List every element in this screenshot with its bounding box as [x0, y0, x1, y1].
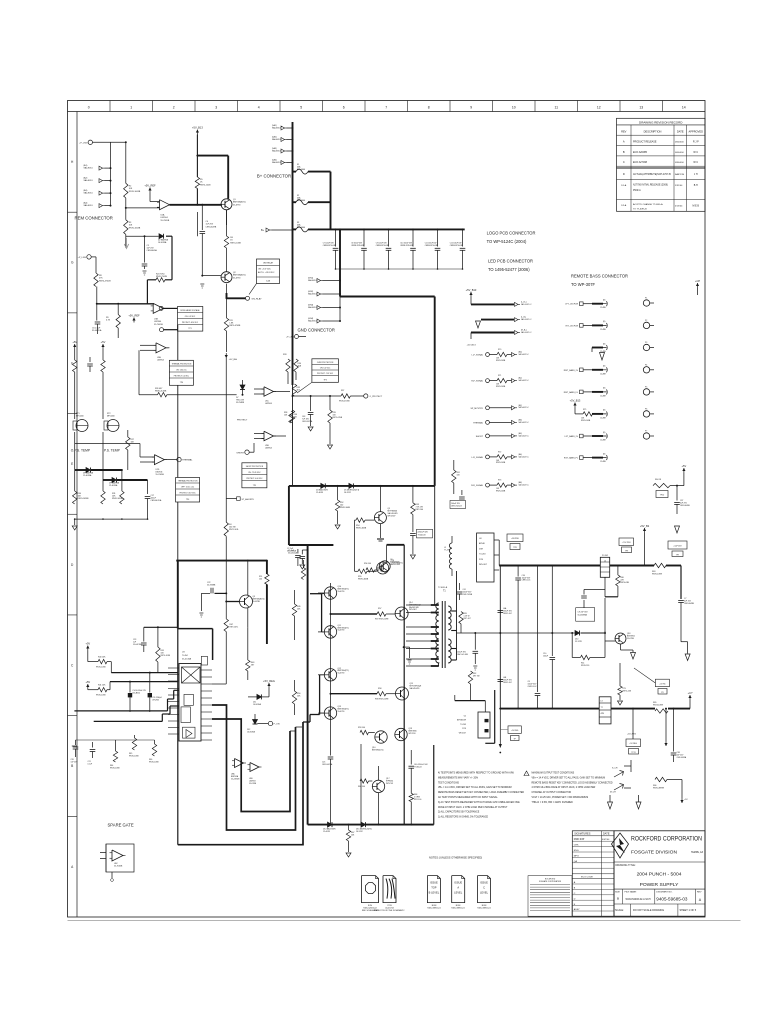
svg-text:+5V_REF: +5V_REF — [144, 183, 156, 187]
svg-text:RN70-102B: RN70-102B — [200, 184, 211, 186]
svg-text:+5V_B2: +5V_B2 — [640, 524, 650, 528]
output bus y=565.5 — [499, 565, 600, 567]
svg-text:9405-33855-01: 9405-33855-01 — [451, 907, 465, 909]
svg-text:TO 1495-52477 (2006): TO 1495-52477 (2006) — [488, 267, 530, 272]
op-amp U1A — [160, 200, 170, 210]
svg-text:RN74-10RE: RN74-10RE — [653, 704, 664, 706]
rail x=266.9 down — [266, 561, 268, 574]
svg-text:ACCPTD CHANGE T7-50R+A: ACCPTD CHANGE T7-50R+A — [633, 203, 663, 206]
svg-text:A: A — [623, 140, 625, 144]
svg-text:TP4: TP4 — [186, 499, 189, 501]
leader from over protection box — [297, 382, 312, 393]
svg-text:55-7478: 55-7478 — [575, 641, 582, 643]
svg-text:RN70-103B: RN70-103B — [496, 490, 506, 492]
svg-text:5A2+6027+C: 5A2+6027+C — [519, 353, 530, 356]
svg-text:TP5: TP5 — [253, 485, 256, 487]
svg-text:RN71-101L: RN71-101L — [229, 529, 239, 531]
regulator U2 box — [478, 712, 490, 738]
svg-text:3: 3 — [215, 106, 217, 110]
svg-text:BLT-0640: BLT-0640 — [297, 169, 305, 171]
capacitor C38 — [673, 709, 675, 752]
svg-text:LM2904: LM2904 — [154, 321, 162, 323]
capacitor L4B on x=500.3 — [498, 679, 504, 681]
capacitor C15 polarized — [149, 673, 151, 693]
svg-text:U1B: U1B — [154, 319, 159, 321]
svg-text:12-4039: 12-4039 — [316, 492, 323, 494]
diode D5 — [349, 483, 354, 488]
svg-text:RN?-100: RN?-100 — [414, 799, 421, 801]
svg-text:12-4RE: 12-4RE — [600, 373, 607, 375]
svg-text:SCALE:: SCALE: — [615, 909, 624, 912]
vertical link left of D10 — [571, 633, 573, 658]
pin +P_LNG top — [88, 140, 92, 144]
svg-text:PROTECT: 0.4 VDC: PROTECT: 0.4 VDC — [174, 375, 190, 377]
main B+ bus horizontal thick — [308, 228, 465, 230]
svg-text:CERO-10C: CERO-10C — [503, 613, 513, 615]
svg-text:11: 11 — [554, 106, 558, 110]
svg-text:55-7065B: 55-7065B — [154, 324, 163, 326]
svg-text:BMT586A(T1): BMT586A(T1) — [233, 201, 246, 204]
pin P_ON — [268, 721, 272, 725]
pin +P_LNG lower — [87, 255, 91, 259]
svg-text:VOLT = 10.25 VAC, POWER SET =: VOLT = 10.25 VAC, POWER SET = 600 MS/MAX… — [532, 796, 589, 799]
svg-text:RN?-10TL: RN?-10TL — [230, 627, 239, 629]
resistor R38 on rail — [290, 410, 294, 423]
Q17 wires — [378, 793, 380, 825]
svg-text:WP-0307: WP-0307 — [409, 609, 417, 611]
svg-text:CHK: CHK — [574, 845, 579, 847]
pin B+ — [266, 228, 270, 232]
svg-text:CERM-3376-63B: CERM-3376-63B — [376, 245, 390, 247]
fuse F1 body — [296, 169, 308, 174]
Q5 drain to bus — [380, 485, 382, 487]
thermistor RT1 — [76, 420, 88, 432]
svg-text:+5V R5: +5V R5 — [659, 683, 665, 685]
resistor R42 — [157, 626, 159, 628]
testpoint box +75uF 35V — [619, 538, 634, 546]
thick junction row y=303.8 — [97, 303, 154, 305]
svg-text:1uF 25V: 1uF 25V — [71, 761, 79, 763]
svg-text:55-6790: 55-6790 — [338, 673, 345, 675]
U3 inner cross block — [182, 667, 201, 683]
svg-text:TO T7-60R+B: TO T7-60R+B — [633, 209, 647, 211]
svg-text:+5V_B13: +5V_B13 — [466, 288, 477, 292]
svg-text:ISSUE: ISSUE — [480, 881, 488, 885]
svg-text:R58: R58 — [378, 688, 381, 690]
svg-text:55-7065B: 55-7065B — [114, 866, 123, 868]
resistor R39 — [329, 395, 331, 397]
sensor interconnect line — [75, 443, 140, 445]
svg-text:ECO A20085: ECO A20085 — [633, 151, 648, 154]
resistor R69 secondary — [459, 612, 463, 624]
resistor R51 — [265, 574, 269, 584]
diode D8 — [74, 432, 76, 470]
svg-text:+5V_REF: +5V_REF — [128, 313, 140, 317]
GND bus from B+ area — [339, 229, 341, 296]
svg-text:R75: R75 — [583, 409, 586, 411]
resistor R3 — [124, 220, 128, 235]
svg-text:POWER SUPPLY: POWER SUPPLY — [640, 882, 680, 888]
buffer gate U6B — [250, 763, 259, 772]
svg-text:PWR-A: PWR-A — [633, 189, 641, 192]
rail jog to IC pin column — [178, 628, 213, 630]
wire loop inner — [212, 719, 290, 812]
svg-text:DRAWING REVISION RECORD: DRAWING REVISION RECORD — [639, 120, 683, 124]
svg-text:WP-0307: WP-0307 — [388, 516, 396, 518]
svg-text:5A2+6027+C: 5A2+6027+C — [519, 434, 530, 437]
svg-text:DRV/LOADER VOLTAGE: DRV/LOADER VOLTAGE — [180, 309, 200, 312]
svg-text:TEST CONDITIONS: TEST CONDITIONS — [438, 782, 459, 784]
fuse F2 body — [296, 200, 308, 205]
svg-text:DRAWING TITLE:: DRAWING TITLE: — [616, 864, 636, 867]
svg-text:ASSY: ASSY — [574, 908, 580, 911]
B+ rail lower segment — [292, 385, 294, 486]
thick row y=710.9 with staircase — [74, 710, 167, 712]
Q2 emitter chain down — [226, 284, 228, 318]
svg-text:1: 1 — [130, 106, 132, 110]
svg-text:12-4RE: 12-4RE — [600, 395, 607, 397]
svg-text:OVER PROTECTION: OVER PROTECTION — [317, 362, 334, 364]
svg-text:DATE: DATE — [677, 130, 684, 134]
svg-text:CER-0649B: CER-0649B — [680, 505, 690, 507]
svg-text:+5V: +5V — [682, 464, 687, 468]
svg-text:AP946: AP946 — [479, 542, 485, 545]
svg-text:PCN: PCN — [479, 559, 484, 561]
svg-text:+LV REG: +LV REG — [511, 730, 519, 732]
+LV REG testpoint box — [508, 726, 521, 734]
svg-text:SHORT: SHORT — [236, 452, 244, 454]
svg-text:PC-302: PC-302 — [602, 555, 608, 557]
svg-text:B+ CONNECTOR: B+ CONNECTOR — [257, 174, 291, 179]
svg-text:P.S. TEMP: P.S. TEMP — [104, 448, 121, 452]
svg-text:L3: L3 — [601, 701, 603, 703]
svg-text:RGT_BASS_FL: RGT_BASS_FL — [564, 457, 579, 460]
svg-text:RN70-1B4B: RN70-1B4B — [356, 528, 367, 530]
capacitor L4A on x=500.3 — [498, 610, 504, 612]
diode D10 row — [457, 632, 575, 634]
svg-text:+5V_B13: +5V_B13 — [466, 345, 476, 347]
transistor Q18 — [615, 633, 626, 644]
svg-text:CERO-10C: CERO-10C — [503, 682, 513, 684]
ground — [346, 853, 351, 857]
svg-text:BLT-0640: BLT-0640 — [297, 200, 305, 202]
svg-text:DESCRIPTION: DESCRIPTION — [644, 130, 662, 134]
svg-text:55-678B: 55-678B — [253, 601, 261, 603]
output bus lower y=708.6 — [500, 708, 599, 710]
svg-text:CER-0649A: CER-0649A — [147, 249, 158, 252]
capacitor C5 — [144, 236, 146, 262]
svg-text:RN70-1003B: RN70-1003B — [129, 191, 141, 193]
svg-text:BMT586A(T1): BMT586A(T1) — [233, 274, 246, 277]
left letter strip — [76, 112, 78, 918]
svg-text:MAXIMUM OUTPUT TEST CONDITIONS: MAXIMUM OUTPUT TEST CONDITIONS — [532, 772, 575, 775]
open arrow down c37 — [675, 526, 680, 533]
svg-text:LM2904: LM2904 — [265, 448, 272, 450]
svg-text:RN70-103B: RN70-103B — [149, 761, 159, 763]
capacitor C8 column — [537, 566, 539, 693]
svg-text:16-3112: 16-3112 — [344, 492, 351, 494]
notes column 2 with warning triangle — [524, 771, 529, 776]
pin GN_RELAY — [246, 296, 250, 300]
cap + res column x=411 — [410, 750, 412, 765]
pin +P_LNG gnd area — [295, 335, 299, 339]
MOSFET Q15 — [396, 687, 409, 700]
svg-text:MF-5000: MF-5000 — [107, 416, 115, 418]
svg-text:9: 9 — [470, 106, 472, 110]
svg-text:S_CH: S_CH — [612, 768, 618, 770]
resistor R67 — [348, 824, 350, 826]
svg-text:L-F_SGNAL: L-F_SGNAL — [472, 354, 484, 357]
+5V_RB arrow chains — [74, 344, 76, 349]
svg-text:5A2+6027+C: 5A2+6027+C — [519, 406, 530, 409]
svg-text:4K7: 4K7 — [251, 665, 254, 667]
svg-text:RN70-1003B: RN70-1003B — [129, 227, 141, 229]
svg-text:AUTO: +13.8 VDC: AUTO: +13.8 VDC — [258, 271, 275, 274]
svg-text:ON: 0.3 VDC: ON: 0.3 VDC — [185, 316, 196, 318]
pin O_PROTECT — [364, 394, 368, 398]
svg-text:PROTECT: 0.06 VDC: PROTECT: 0.06 VDC — [246, 478, 263, 480]
transistor Q11 — [324, 626, 336, 638]
thermistor RT2 — [107, 420, 119, 432]
T1 right pins — [451, 610, 456, 612]
svg-text:R40 10K: R40 10K — [98, 657, 106, 659]
svg-text:+5B PSU: +5B PSU — [511, 538, 519, 540]
svg-text:ON: 130 ±5C: ON: 130 ±5C — [176, 369, 187, 371]
svg-text:+5uF 45V: +5uF 45V — [673, 545, 682, 547]
snubber under T1 — [468, 671, 472, 684]
capacitor C9 — [388, 228, 390, 230]
svg-text:RN70-103B: RN70-103B — [496, 386, 506, 388]
svg-text:SA-545-WD: SA-545-WD — [410, 687, 421, 690]
svg-text:RN75-03VB: RN75-03VB — [333, 417, 343, 419]
svg-text:SA0-E051: SA0-E051 — [84, 179, 94, 182]
svg-text:APPROVED: APPROVED — [689, 130, 704, 134]
bus y=560.6 — [176, 560, 267, 562]
svg-text:ON: 72.45 VDC: ON: 72.45 VDC — [248, 472, 261, 474]
pin to DRV box lower — [160, 328, 164, 332]
ground — [328, 445, 333, 449]
svg-text:SA0-E051: SA0-E051 — [272, 149, 281, 152]
connector circle pin 4 — [643, 367, 649, 373]
svg-text:MFG: MFG — [574, 855, 579, 857]
svg-text:RN70-10RE: RN70-10RE — [652, 573, 663, 575]
svg-text:(A4): (A4) — [84, 201, 88, 204]
svg-text:L-R_SGNAL: L-R_SGNAL — [471, 456, 483, 459]
svg-text:RN70-1B4B: RN70-1B4B — [358, 579, 369, 581]
size/file/part row — [621, 889, 623, 904]
THERMAL PROTECTION box 1 — [169, 360, 193, 385]
svg-text:13: 13 — [639, 106, 643, 110]
thick row 3 — [471, 332, 514, 334]
svg-text:12-4039A: 12-4039A — [83, 474, 92, 477]
svg-text:5A2+6027+C: 5A2+6027+C — [519, 421, 530, 424]
svg-text:555-B524: 555-B524 — [132, 692, 140, 694]
resistor R4 — [224, 522, 228, 536]
capacitor C9 — [583, 590, 585, 595]
svg-text:TP10: TP10 — [660, 494, 664, 496]
op-amp U5C — [264, 387, 274, 397]
pin ST_AHOSTD — [226, 498, 236, 500]
svg-text:R J P: R J P — [693, 141, 699, 144]
svg-text:TP6: TP6 — [180, 382, 183, 384]
svg-text:THD+N = 0.5%, BW = 22kHz FILTE: THD+N = 0.5%, BW = 22kHz FILTERED — [532, 802, 574, 804]
svg-text:RN70-103B: RN70-103B — [96, 695, 106, 697]
svg-text:+5V: +5V — [85, 680, 90, 684]
svg-text:SA0-E051: SA0-E051 — [84, 204, 94, 207]
wire loop middle — [212, 705, 296, 830]
thick output wire — [170, 204, 223, 206]
transistor Q2 — [221, 272, 232, 283]
pin THERMAL — [177, 457, 181, 461]
svg-text:GND CONNECTOR: GND CONNECTOR — [298, 328, 335, 333]
svg-text:THERMAL PROTECTION: THERMAL PROTECTION — [178, 480, 198, 483]
svg-text:CERM-3376-63B: CERM-3376-63B — [323, 245, 337, 247]
diode D2 — [159, 234, 164, 239]
svg-text:CERM-3376-63B: CERM-3376-63B — [450, 245, 464, 247]
svg-text:RMT_BASS_FL: RMT_BASS_FL — [564, 391, 579, 394]
svg-text:C: C — [623, 160, 625, 164]
capacitor C41 secondary — [457, 591, 463, 593]
svg-text:B H: B H — [694, 184, 698, 187]
svg-text:6/07/04: 6/07/04 — [602, 839, 610, 841]
O_PROTECT row — [292, 395, 294, 397]
svg-text:12-4RE: 12-4RE — [600, 329, 607, 331]
svg-text:BARTON: BARTON — [675, 173, 684, 176]
svg-text:100: 100 — [259, 578, 262, 580]
svg-text:SA0-E051: SA0-E051 — [84, 167, 94, 170]
svg-text:4/15/04: 4/15/04 — [675, 206, 683, 208]
svg-text:RN70-03B: RN70-03B — [620, 582, 629, 584]
capacitor C~ left — [87, 363, 93, 365]
switch row lower y=693.7 — [331, 693, 378, 695]
capacitor C11 — [437, 228, 439, 230]
ground — [410, 555, 415, 559]
resistor R9 — [116, 315, 120, 329]
svg-text:ST_AHOSTD: ST_AHOSTD — [242, 498, 255, 501]
connector circle pin 7 — [643, 433, 649, 439]
resistor R54 gate — [356, 518, 365, 522]
capacitor C30 with box label — [410, 533, 416, 535]
svg-text:DWG/PART NO.: DWG/PART NO. — [656, 890, 672, 893]
svg-text:5: 5 — [300, 106, 302, 110]
resistor R5 — [195, 177, 199, 189]
svg-text:U2: U2 — [464, 716, 466, 718]
secondary tie row y=700.6 — [455, 700, 486, 702]
transformer T1 core — [441, 601, 443, 668]
svg-text:55-6790: 55-6790 — [233, 277, 241, 279]
svg-text:SA0-E051: SA0-E051 — [308, 279, 317, 282]
svg-text:TO WP-307F: TO WP-307F — [571, 282, 596, 287]
svg-text:7: 7 — [385, 106, 387, 110]
svg-text:WP-P03: WP-P03 — [386, 783, 393, 785]
svg-text:+P_LNG: +P_LNG — [79, 142, 88, 144]
svg-text:TP7: TP7 — [676, 554, 679, 556]
top right +5V feed — [683, 468, 685, 473]
switch node thick wires — [387, 544, 405, 546]
svg-text:5A2+6027+C: 5A2+6027+C — [521, 331, 532, 334]
capacitor C1 — [300, 555, 306, 557]
testpoint box right — [668, 541, 687, 549]
svg-text:+5V_REG: +5V_REG — [263, 679, 275, 683]
svg-text:REV: REV — [697, 891, 702, 893]
svg-text:P6: P6 — [645, 408, 647, 410]
svg-text:RN70-4703B: RN70-4703B — [229, 325, 241, 327]
svg-text:0: 0 — [88, 106, 90, 110]
svg-text:4: 4 — [258, 106, 260, 110]
svg-text:BMT3904(T1): BMT3904(T1) — [392, 562, 404, 564]
svg-text:55-6790: 55-6790 — [338, 711, 345, 713]
svg-text:LVR-965: LVR-965 — [152, 699, 159, 701]
svg-text:55-PHRN: 55-PHRN — [236, 402, 245, 404]
svg-text:A27706 INITIAL RELEASE (2008): A27706 INITIAL RELEASE (2008) — [633, 184, 668, 187]
U3 left pins — [168, 667, 179, 669]
ground — [618, 701, 623, 705]
svg-text:12-4RE: 12-4RE — [600, 440, 607, 442]
svg-text:R71: R71 — [498, 375, 501, 377]
svg-text:U1A: U1A — [161, 214, 166, 217]
svg-text:12-4039: 12-4039 — [323, 831, 330, 833]
svg-text:T7: T7 — [601, 707, 603, 709]
svg-text:WP-P03: WP-P03 — [409, 733, 416, 735]
secondary left components — [452, 470, 456, 483]
svg-text:P1: P1 — [645, 298, 647, 300]
document icon b — [427, 876, 440, 903]
svg-text:14: 14 — [682, 106, 686, 110]
svg-text:BLT-0640: BLT-0640 — [297, 227, 305, 229]
svg-text:MF-5000: MF-5000 — [76, 416, 84, 418]
svg-text:TO-263: TO-263 — [479, 554, 485, 556]
svg-text:RN70-103B: RN70-103B — [161, 655, 171, 657]
resistor R2 — [124, 183, 128, 198]
svg-text:TL494: TL494 — [182, 655, 189, 657]
svg-text:TP3: TP3 — [323, 380, 326, 382]
svg-text:CERM-3376-63B: CERM-3376-63B — [425, 245, 439, 247]
+5V_B13 power arrow — [196, 130, 198, 135]
svg-text:RN70-4703B: RN70-4703B — [339, 401, 350, 403]
svg-text:WP-0107: WP-0107 — [479, 564, 487, 566]
svg-text:BARE PCB OF THE SCHEMATIC: BARE PCB OF THE SCHEMATIC — [374, 909, 405, 912]
title block — [614, 831, 705, 916]
svg-text:PROTECT: PROTECT — [237, 419, 248, 421]
GND connector pins — [317, 279, 321, 283]
svg-text:4 OHM FULL BRG RAVE AT INPUT J: 4 OHM FULL BRG RAVE AT INPUT JACK, 2 OHM… — [532, 786, 596, 789]
rail x=177.8 long vertical — [177, 325, 179, 360]
REM connector pins — [99, 166, 103, 170]
diode D12 P_ON — [253, 720, 258, 725]
svg-text:PROTECT: 4/10 VDC: PROTECT: 4/10 VDC — [182, 322, 199, 324]
svg-text:W C: W C — [693, 161, 698, 164]
bottom rail — [74, 518, 148, 520]
svg-text:TO WP-5124C (2004): TO WP-5124C (2004) — [487, 239, 527, 244]
capacitor C6 — [95, 321, 101, 323]
svg-text:RN?-100: RN?-100 — [416, 509, 424, 511]
svg-text:+5V: +5V — [101, 340, 106, 344]
svg-text:B: B — [617, 897, 619, 901]
left pin stub — [72, 745, 77, 747]
svg-text:SA0-E051: SA0-E051 — [272, 161, 281, 164]
svg-text:RN70-103B: RN70-103B — [129, 755, 139, 757]
svg-text:LM2904: LM2904 — [265, 403, 272, 405]
svg-text:FILE NAME:: FILE NAME: — [625, 890, 638, 893]
svg-text:09/04/04: 09/04/04 — [675, 162, 684, 164]
U3 inner blocks — [184, 694, 193, 705]
svg-text:RN70-103B: RN70-103B — [96, 667, 106, 669]
svg-text:RN70-1093B: RN70-1093B — [112, 498, 124, 500]
wire vertical to resistors — [125, 142, 127, 183]
svg-text:LOGO PCB CONNECTOR: LOGO PCB CONNECTOR — [487, 231, 536, 236]
svg-text:LED PCB CONNECTOR: LED PCB CONNECTOR — [488, 259, 533, 264]
thick vertical joining fuses — [330, 172, 332, 230]
